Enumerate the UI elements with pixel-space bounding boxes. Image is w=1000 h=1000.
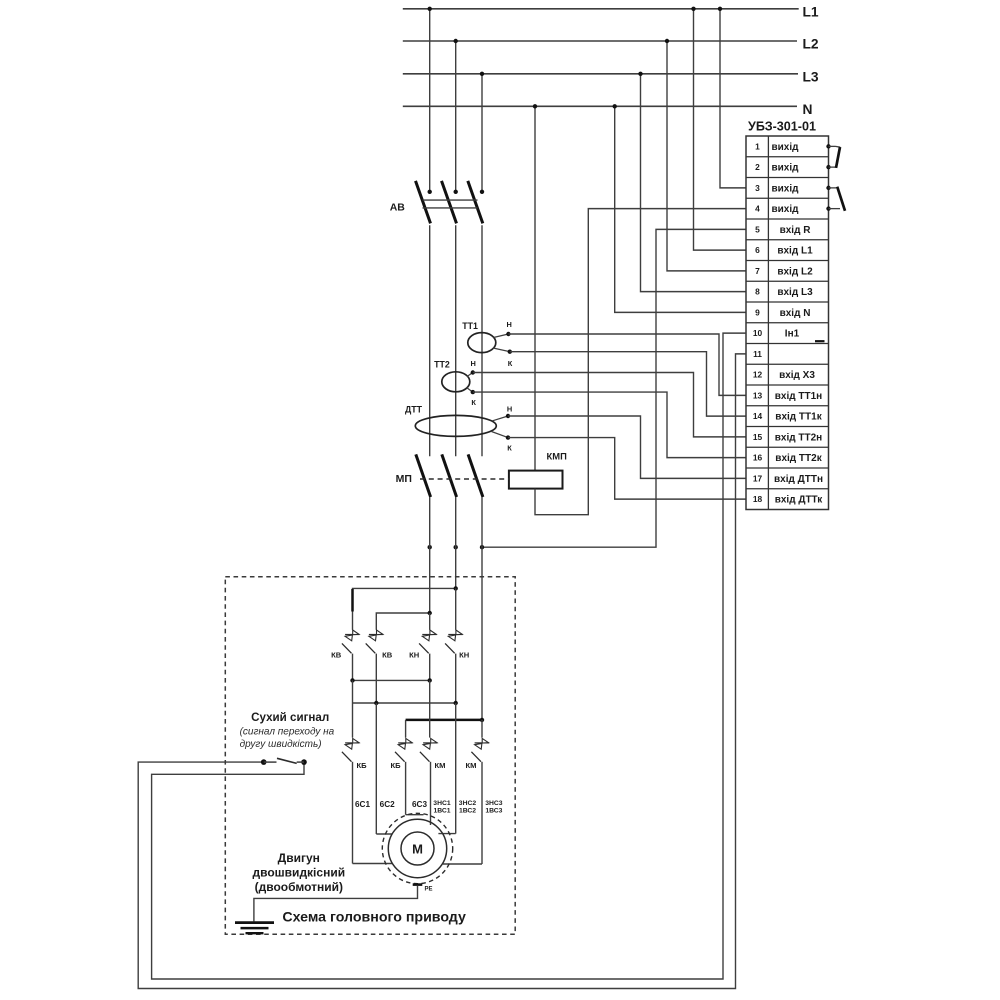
wire bus L2 [403,40,797,42]
svg-text:6С3: 6С3 [412,800,427,809]
svg-text:17: 17 [753,473,763,483]
svg-text:Сухий сигнал: Сухий сигнал [251,711,329,724]
svg-text:КВ: КВ [382,650,393,659]
svg-text:3НС2: 3НС2 [459,800,477,807]
wire KB2 to motor [406,762,424,815]
svg-text:10: 10 [753,328,763,338]
svg-text:вхід L1: вхід L1 [777,246,813,257]
svg-text:вихід: вихід [772,163,800,174]
svg-text:ТТ2: ТТ2 [434,359,450,369]
wire bus N [403,105,797,107]
enclosure caption [282,910,466,926]
wire KM1 to motor [430,762,432,825]
wire TT2-K to terminal 16 [473,392,746,458]
contact KB2 (КБ) [390,738,412,769]
wire KV1-KN1 junction [350,678,432,682]
wire phase B to KV1 top [353,586,458,630]
wire TT2-H to terminal 15 [473,373,746,437]
node L1 label [803,4,819,19]
svg-text:вихід: вихід [772,142,800,153]
motor terminal labels 6C [355,800,427,809]
svg-text:3НС1: 3НС1 [433,800,451,807]
dry signal labels [240,711,335,750]
svg-text:3: 3 [755,183,760,193]
contact KN2 (КН) [445,630,469,703]
svg-text:Н: Н [507,320,512,329]
wire phase A contactor down [429,497,431,613]
wire phase B breaker to contactor [455,225,457,456]
svg-text:вхід ТТ2к: вхід ТТ2к [775,453,822,464]
wire junction to motor 6C2 [375,703,377,834]
svg-text:РЕ: РЕ [425,887,433,893]
svg-text:вхід L3: вхід L3 [777,287,813,298]
wire bus L1 [403,8,799,10]
svg-text:3НС3: 3НС3 [485,800,503,807]
svg-text:ТТ1: ТТ1 [462,321,478,331]
wire junction to KB1 [352,680,354,737]
wire L2 to terminal 7 [665,39,746,271]
svg-text:вхід Х3: вхід Х3 [779,370,815,381]
node N label [803,102,813,117]
svg-text:вихід: вихід [772,204,800,215]
svg-text:вхід ДТТк: вхід ДТТк [775,495,824,506]
svg-text:(двообмотний): (двообмотний) [255,880,343,894]
svg-text:Н: Н [471,359,476,368]
wire phase A breaker to contactor [429,225,431,456]
svg-text:14: 14 [753,411,763,421]
svg-text:Двигун: Двигун [278,851,320,865]
wire phase C to KM2 [481,720,483,738]
ground symbol [235,923,274,934]
svg-text:К: К [507,443,512,452]
svg-text:N: N [803,102,813,117]
wire L3 to terminal 8 [638,72,746,292]
wire N to coil KMP [533,104,537,471]
motor caption [253,851,346,894]
svg-text:L2: L2 [803,37,819,52]
wire L2 drop to breaker [454,39,458,194]
svg-text:МП: МП [396,473,412,485]
svg-text:ДТТ: ДТТ [405,405,423,415]
contact KB1 (КБ) [342,738,367,769]
svg-text:другу швидкість): другу швидкість) [240,739,322,750]
wire L1 to terminal 6 [691,7,746,251]
coil KMP [509,450,567,488]
svg-text:КБ: КБ [356,761,367,770]
svg-text:12: 12 [753,370,763,380]
svg-text:1: 1 [755,141,760,151]
wire KB1 to motor [353,762,393,864]
svg-text:УБЗ-301-01: УБЗ-301-01 [748,119,816,133]
svg-text:4: 4 [755,204,760,214]
wire DTT-H to terminal 17 [508,416,746,478]
wire TT1-H to terminal 13 [508,334,746,395]
wire motor phases to terminal 5 (vhid R) [428,229,747,549]
svg-text:вхід N: вхід N [780,308,811,319]
wire 6C2 to motor [376,833,392,835]
svg-text:АВ: АВ [390,201,406,213]
contact KV2 (КВ) [366,630,393,703]
svg-text:L3: L3 [803,69,819,84]
wire DTT-K to terminal 18 [508,438,746,500]
circuit breaker AB [390,181,483,224]
wire phase B contactor down [455,497,457,588]
svg-text:Н: Н [507,405,512,414]
contact KN1 (КН) [409,630,437,680]
svg-text:КН: КН [409,650,419,659]
relay contact terminals 3-4 [826,186,845,211]
svg-text:вхід ДТТн: вхід ДТТн [774,474,823,485]
svg-text:1ВС2: 1ВС2 [459,807,476,814]
wire N to terminal 9 [613,104,747,312]
svg-text:Схема головного приводу: Схема головного приводу [282,910,466,926]
dry signal contact [261,758,307,765]
svg-text:7: 7 [755,266,760,276]
svg-text:L1: L1 [803,4,819,19]
wire phase B to KN2 top [455,588,457,629]
svg-text:К: К [471,398,476,407]
svg-text:КВ: КВ [331,650,342,659]
wire KV2-KN2 junction [353,701,458,705]
svg-text:КМ: КМ [435,761,446,770]
wire phase A to KN1 top [429,613,431,630]
svg-text:КМП: КМП [547,450,568,461]
motor M two-speed [382,813,452,883]
svg-text:6: 6 [755,245,760,255]
svg-text:11: 11 [753,349,762,359]
svg-text:8: 8 [755,287,760,297]
wire KN2 to motor 3HC2 [455,703,457,834]
terminal block UBZ-301-01 [746,119,829,509]
svg-text:18: 18 [753,494,763,504]
wire coil KMP to terminal 4 [535,209,746,515]
wire L3 drop to breaker [480,72,484,194]
wire dry-contact left to terminal 11 [138,354,746,989]
svg-text:К: К [508,359,513,368]
current transformer TT2 [434,359,476,407]
svg-text:9: 9 [755,307,760,317]
svg-text:1ВС1: 1ВС1 [433,807,450,814]
wire 3HC2 to motor [438,833,455,835]
node L3 label [803,69,819,84]
svg-text:вхід ТТ1н: вхід ТТ1н [775,391,822,402]
svg-text:6С1: 6С1 [355,800,370,809]
svg-text:Ін1: Ін1 [785,329,800,340]
wire phase C to KB2 (thick) [406,718,485,738]
dashed enclosure main drive [225,577,515,935]
svg-text:вхід R: вхід R [780,225,812,236]
motor PE terminal [413,885,433,893]
motor terminal labels 3HC/1BC [433,800,502,815]
svg-text:2: 2 [755,162,760,172]
wire dry-contact right to terminal 10 [152,333,746,979]
differential current transformer DTT [405,405,512,453]
svg-text:КН: КН [459,650,469,659]
svg-text:КМ: КМ [466,761,477,770]
wire phase A to KV2 top [376,611,432,630]
contact KM2 (КМ) [466,738,489,769]
wire L1 drop to breaker [428,7,432,194]
svg-text:15: 15 [753,432,763,442]
relay contact terminals 1-2 [826,144,840,169]
svg-text:М: М [412,841,423,856]
wire phase C contactor down [481,497,483,720]
svg-text:16: 16 [753,453,763,463]
svg-text:13: 13 [753,390,763,400]
wire L1 to terminal 3 [718,7,746,188]
svg-text:5: 5 [755,224,760,234]
svg-text:вхід ТТ1к: вхід ТТ1к [775,412,822,423]
svg-text:вихід: вихід [772,183,800,194]
svg-text:КБ: КБ [390,761,401,770]
svg-text:двошвидкісний: двошвидкісний [253,866,346,880]
svg-text:1ВС3: 1ВС3 [485,807,502,814]
wire PE to ground [254,886,418,922]
contact KV1 (КВ) [331,630,359,680]
svg-text:(сигнал переходу на: (сигнал переходу на [240,727,335,738]
svg-text:6С2: 6С2 [380,800,395,809]
wire phase C breaker to contactor [481,225,483,456]
contactor MP [396,454,509,497]
node L2 label [803,37,819,52]
current transformer TT1 [462,320,512,368]
wire TT1-K to terminal 14 [510,352,746,416]
wire bus L3 [403,73,798,75]
wire KM2 to motor [443,762,482,864]
svg-text:вхід ТТ2н: вхід ТТ2н [775,432,822,443]
wire KN1 to KM1 [429,680,431,737]
contact KM1 (КМ) [420,738,446,769]
svg-text:вхід L2: вхід L2 [777,266,813,277]
